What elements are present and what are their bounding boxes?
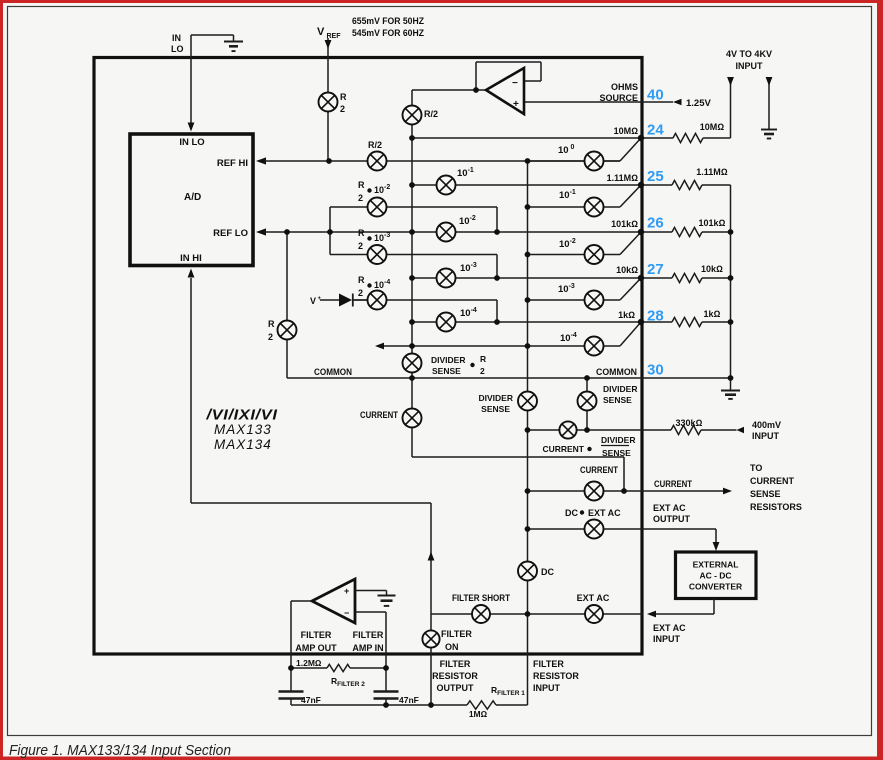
svg-text:AMP IN: AMP IN	[352, 643, 383, 653]
svg-text:1.11MΩ: 1.11MΩ	[696, 167, 728, 177]
svg-text:1.2MΩ: 1.2MΩ	[296, 658, 322, 668]
svg-text:REF: REF	[327, 33, 342, 40]
svg-text:25: 25	[647, 168, 664, 185]
svg-text:24: 24	[647, 122, 664, 139]
svg-text:SENSE: SENSE	[602, 448, 631, 458]
svg-text:RESISTOR: RESISTOR	[432, 671, 478, 681]
svg-text:26: 26	[647, 215, 664, 232]
svg-text:SENSE: SENSE	[481, 404, 510, 414]
svg-text:4V TO 4KV: 4V TO 4KV	[726, 49, 772, 59]
svg-text:IN HI: IN HI	[180, 253, 202, 264]
svg-text:REF LO: REF LO	[213, 228, 248, 239]
svg-text:10kΩ: 10kΩ	[701, 264, 723, 274]
svg-text:CURRENT: CURRENT	[580, 465, 618, 475]
svg-text:2: 2	[480, 366, 485, 376]
svg-text:DC: DC	[541, 567, 554, 577]
svg-text:+: +	[318, 296, 322, 302]
svg-text:FILTER: FILTER	[441, 629, 472, 639]
svg-text:Figure 1. MAX133/134 Input Se: Figure 1. MAX133/134 Input Section	[9, 743, 231, 759]
svg-text:EXT AC: EXT AC	[577, 593, 610, 603]
svg-text:DIVIDER: DIVIDER	[479, 393, 513, 403]
svg-text:INPUT: INPUT	[752, 431, 780, 441]
svg-text:CURRENT: CURRENT	[542, 444, 584, 454]
svg-text:MAX134: MAX134	[214, 437, 272, 452]
svg-text:101kΩ: 101kΩ	[699, 218, 726, 228]
svg-text:V: V	[317, 26, 325, 38]
svg-text:AC - DC: AC - DC	[699, 571, 731, 581]
svg-text:RESISTOR: RESISTOR	[533, 671, 579, 681]
svg-text:DIVIDER: DIVIDER	[603, 384, 637, 394]
svg-text:EXT AC: EXT AC	[653, 623, 686, 633]
svg-text:+: +	[513, 99, 519, 110]
svg-text:EXTERNAL: EXTERNAL	[693, 560, 739, 570]
svg-text:DC: DC	[565, 508, 578, 518]
svg-text:INPUT: INPUT	[653, 634, 681, 644]
svg-text:REF HI: REF HI	[217, 158, 248, 169]
svg-text:R/2: R/2	[368, 140, 382, 150]
svg-text:FILTER: FILTER	[440, 659, 471, 669]
svg-text:10MΩ: 10MΩ	[614, 126, 639, 136]
svg-text:1kΩ: 1kΩ	[618, 310, 635, 320]
svg-text:ON: ON	[445, 642, 459, 652]
svg-text:AMP OUT: AMP OUT	[295, 643, 337, 653]
svg-text:R: R	[358, 275, 365, 285]
svg-text:SENSE: SENSE	[432, 366, 461, 376]
svg-text:CONVERTER: CONVERTER	[689, 582, 742, 592]
svg-text:IN: IN	[172, 33, 181, 43]
svg-text:CURRENT: CURRENT	[360, 410, 398, 420]
svg-text:SENSE: SENSE	[603, 395, 632, 405]
svg-text:TO: TO	[750, 463, 762, 473]
svg-text:2: 2	[358, 288, 363, 298]
svg-text:DIVIDER: DIVIDER	[601, 435, 635, 445]
svg-text:2: 2	[358, 193, 363, 203]
svg-text:LO: LO	[171, 44, 184, 54]
svg-text:10kΩ: 10kΩ	[616, 265, 638, 275]
svg-text:R: R	[340, 92, 347, 102]
svg-text:A/D: A/D	[184, 192, 201, 203]
svg-text:RESISTORS: RESISTORS	[750, 502, 802, 512]
svg-text:EXT AC: EXT AC	[653, 503, 686, 513]
svg-text:47nF: 47nF	[399, 695, 419, 705]
svg-text:1kΩ: 1kΩ	[704, 309, 721, 319]
svg-text:R: R	[358, 180, 365, 190]
svg-text:V: V	[310, 296, 316, 306]
svg-text:27: 27	[647, 261, 664, 278]
svg-text:CURRENT: CURRENT	[750, 476, 795, 486]
svg-text:FILTER SHORT: FILTER SHORT	[452, 593, 510, 603]
svg-text:FILTER: FILTER	[533, 659, 564, 669]
svg-text:1.25V: 1.25V	[686, 98, 711, 109]
svg-text:47nF: 47nF	[301, 695, 321, 705]
svg-text:FILTER: FILTER	[353, 630, 384, 640]
svg-text:655mV FOR 50HZ: 655mV FOR 50HZ	[352, 16, 424, 26]
svg-text:R: R	[358, 228, 365, 238]
svg-text:545mV FOR 60HZ: 545mV FOR 60HZ	[352, 28, 424, 38]
svg-text:FILTER: FILTER	[301, 630, 332, 640]
svg-text:OUTPUT: OUTPUT	[653, 514, 691, 524]
svg-text:COMMON: COMMON	[596, 367, 637, 377]
svg-text:SOURCE: SOURCE	[599, 93, 638, 103]
svg-text:INPUT: INPUT	[736, 61, 764, 71]
svg-text:2: 2	[358, 241, 363, 251]
svg-text:330kΩ: 330kΩ	[676, 418, 703, 428]
svg-text:CURRENT: CURRENT	[654, 479, 692, 489]
svg-text:400mV: 400mV	[752, 420, 781, 430]
svg-text:101kΩ: 101kΩ	[611, 219, 638, 229]
svg-text:IN LO: IN LO	[179, 137, 204, 148]
svg-text:EXT AC: EXT AC	[588, 508, 621, 518]
svg-text:30: 30	[647, 362, 664, 379]
svg-text:2: 2	[340, 104, 345, 114]
svg-text:R: R	[480, 354, 486, 364]
svg-text:OUTPUT: OUTPUT	[437, 683, 475, 693]
svg-text:SENSE: SENSE	[750, 489, 781, 499]
svg-text:40: 40	[647, 87, 664, 104]
svg-text:R: R	[268, 319, 275, 329]
svg-text:1MΩ: 1MΩ	[469, 709, 488, 719]
svg-text:INPUT: INPUT	[533, 683, 561, 693]
svg-text:R/2: R/2	[424, 109, 438, 119]
svg-text:1.11MΩ: 1.11MΩ	[607, 173, 639, 183]
svg-text:10MΩ: 10MΩ	[700, 122, 725, 132]
svg-text:2: 2	[268, 332, 273, 342]
svg-text:OHMS: OHMS	[611, 82, 638, 92]
svg-text:−: −	[344, 608, 349, 618]
svg-text:−: −	[512, 78, 518, 89]
svg-text:28: 28	[647, 308, 664, 325]
svg-text:COMMON: COMMON	[314, 367, 352, 377]
svg-text:+: +	[344, 586, 349, 596]
svg-text:MAX133: MAX133	[214, 422, 272, 437]
svg-text:DIVIDER: DIVIDER	[431, 355, 465, 365]
